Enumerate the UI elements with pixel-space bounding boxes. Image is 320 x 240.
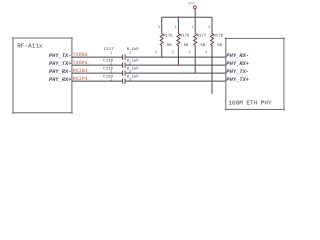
wire row2 TX+ [72,64,226,66]
capacitor C117 [104,47,139,60]
wire column R178 [211,17,213,94]
svg-text:PHY_RX-: PHY_RX- [49,69,72,75]
svg-text:100M ETH PHY: 100M ETH PHY [228,99,272,106]
wire column R177 [194,17,196,73]
wire row3 RX- [72,72,226,74]
junction row1-R175 [161,56,163,58]
svg-text:PHY_RX-: PHY_RX- [226,53,249,59]
capacitor C120 [103,75,139,84]
wire row1 TX- [72,56,226,58]
left box corner ticks [12,37,73,114]
right box corner ticks [225,37,285,110]
svg-text:50: 50 [200,43,205,48]
svg-text:PHY_RX+: PHY_RX+ [49,77,72,83]
wire column R175 [161,17,163,57]
svg-text:PHY_TX+: PHY_TX+ [49,61,72,67]
wire row4 RX+ [72,80,226,82]
svg-text:PHY_TX-: PHY_TX- [49,53,72,59]
junction row3-R177 [194,72,196,74]
junction rail-VCC-R177 [194,16,196,18]
svg-text:50: 50 [217,43,222,48]
svg-text:RF-A11x: RF-A11x [17,43,43,50]
junction rail-R176 [177,16,179,18]
resistor R176 [172,25,190,55]
resistor R175 [155,25,173,55]
svg-text:R178: R178 [213,34,223,39]
svg-text:50: 50 [184,43,189,48]
svg-text:50: 50 [167,43,172,48]
junction row4-R178 [211,80,213,82]
junction row2-R176 [177,64,179,66]
svg-text:PHY_TX+: PHY_TX+ [226,77,249,83]
svg-text:R177: R177 [197,34,207,39]
svg-text:PHY_TX-: PHY_TX- [226,69,249,75]
resistor R178 [205,25,223,55]
wire column R176 [177,17,179,65]
PHY box 100M ETH PHY [226,38,284,109]
resistor R177 [188,25,206,55]
svg-text:PHY_RX+: PHY_RX+ [226,61,249,67]
svg-text:R175: R175 [163,34,173,39]
capacitor C118 [103,59,139,68]
wire VCC drop [194,9,196,17]
svg-text:R176: R176 [180,34,190,39]
wire VCC rail [162,16,212,18]
VCC power symbol [188,2,196,9]
module box RF-A11x [13,38,72,113]
capacitor C119 [103,67,139,76]
